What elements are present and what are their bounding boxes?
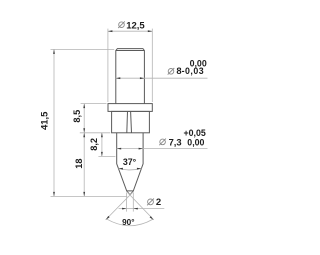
part outline: hex section (112, 111, 150, 132)
dimension 90 degrees: arc (107, 219, 153, 226)
dimension 18: arrows (83, 133, 85, 197)
dimension 37 degrees: arrows (118, 168, 141, 170)
dimension dia 7,3: arrows (117, 148, 143, 150)
dimension 8,5: extension lines (80, 104, 110, 197)
dimension dia 7,3: diameter symbol (159, 139, 166, 146)
part outline: flange (108, 104, 152, 112)
dimension dia 7,3: dim line with leader (117, 148, 208, 150)
dimension 12,5: diameter symbol (118, 21, 125, 28)
dimension 41,5: extension lines (51, 49, 128, 196)
svg-text:8,2: 8,2 (89, 138, 99, 151)
svg-text:7,3: 7,3 (169, 136, 182, 147)
part outline: cylinder body (top, chamfered) (116, 49, 145, 104)
dimension dia 2: extension lines (119, 193, 165, 212)
dimension 8,5: arrows (83, 104, 85, 133)
svg-text:41,5: 41,5 (40, 111, 51, 130)
svg-text:8,5: 8,5 (72, 110, 82, 123)
part outline: neck, cone and 90-degree tip (117, 133, 143, 195)
svg-text:+0,05: +0,05 (184, 128, 206, 138)
dimension 90 degrees: legs (106, 192, 154, 220)
dimension 41,5: arrows (53, 49, 55, 196)
svg-text:37°: 37° (123, 157, 137, 167)
svg-text:-0,03: -0,03 (182, 66, 205, 76)
dimension dia 8: diameter symbol (168, 68, 175, 75)
svg-text:12,5: 12,5 (126, 21, 145, 32)
svg-text:18: 18 (74, 158, 84, 168)
dimension dia 2: diameter symbol (147, 199, 154, 206)
dimension dia 2: arrows (122, 208, 138, 210)
dimension dia 8: dim line with leader (116, 77, 208, 79)
dimension 90 degrees: arrows (106, 216, 154, 220)
dimension 12,5: arrows (108, 30, 152, 32)
dimension 8,2: extension line and dim line (98, 133, 115, 157)
svg-text:90°: 90° (122, 218, 134, 227)
dimension 12,5: extension lines (108, 29, 152, 102)
svg-text:0,00: 0,00 (187, 137, 204, 147)
dimension 8,2: arrows (101, 133, 103, 157)
dimension 37 degrees: arc (118, 169, 141, 170)
svg-text:2: 2 (156, 197, 161, 208)
dimension dia 8: arrows (116, 77, 145, 79)
